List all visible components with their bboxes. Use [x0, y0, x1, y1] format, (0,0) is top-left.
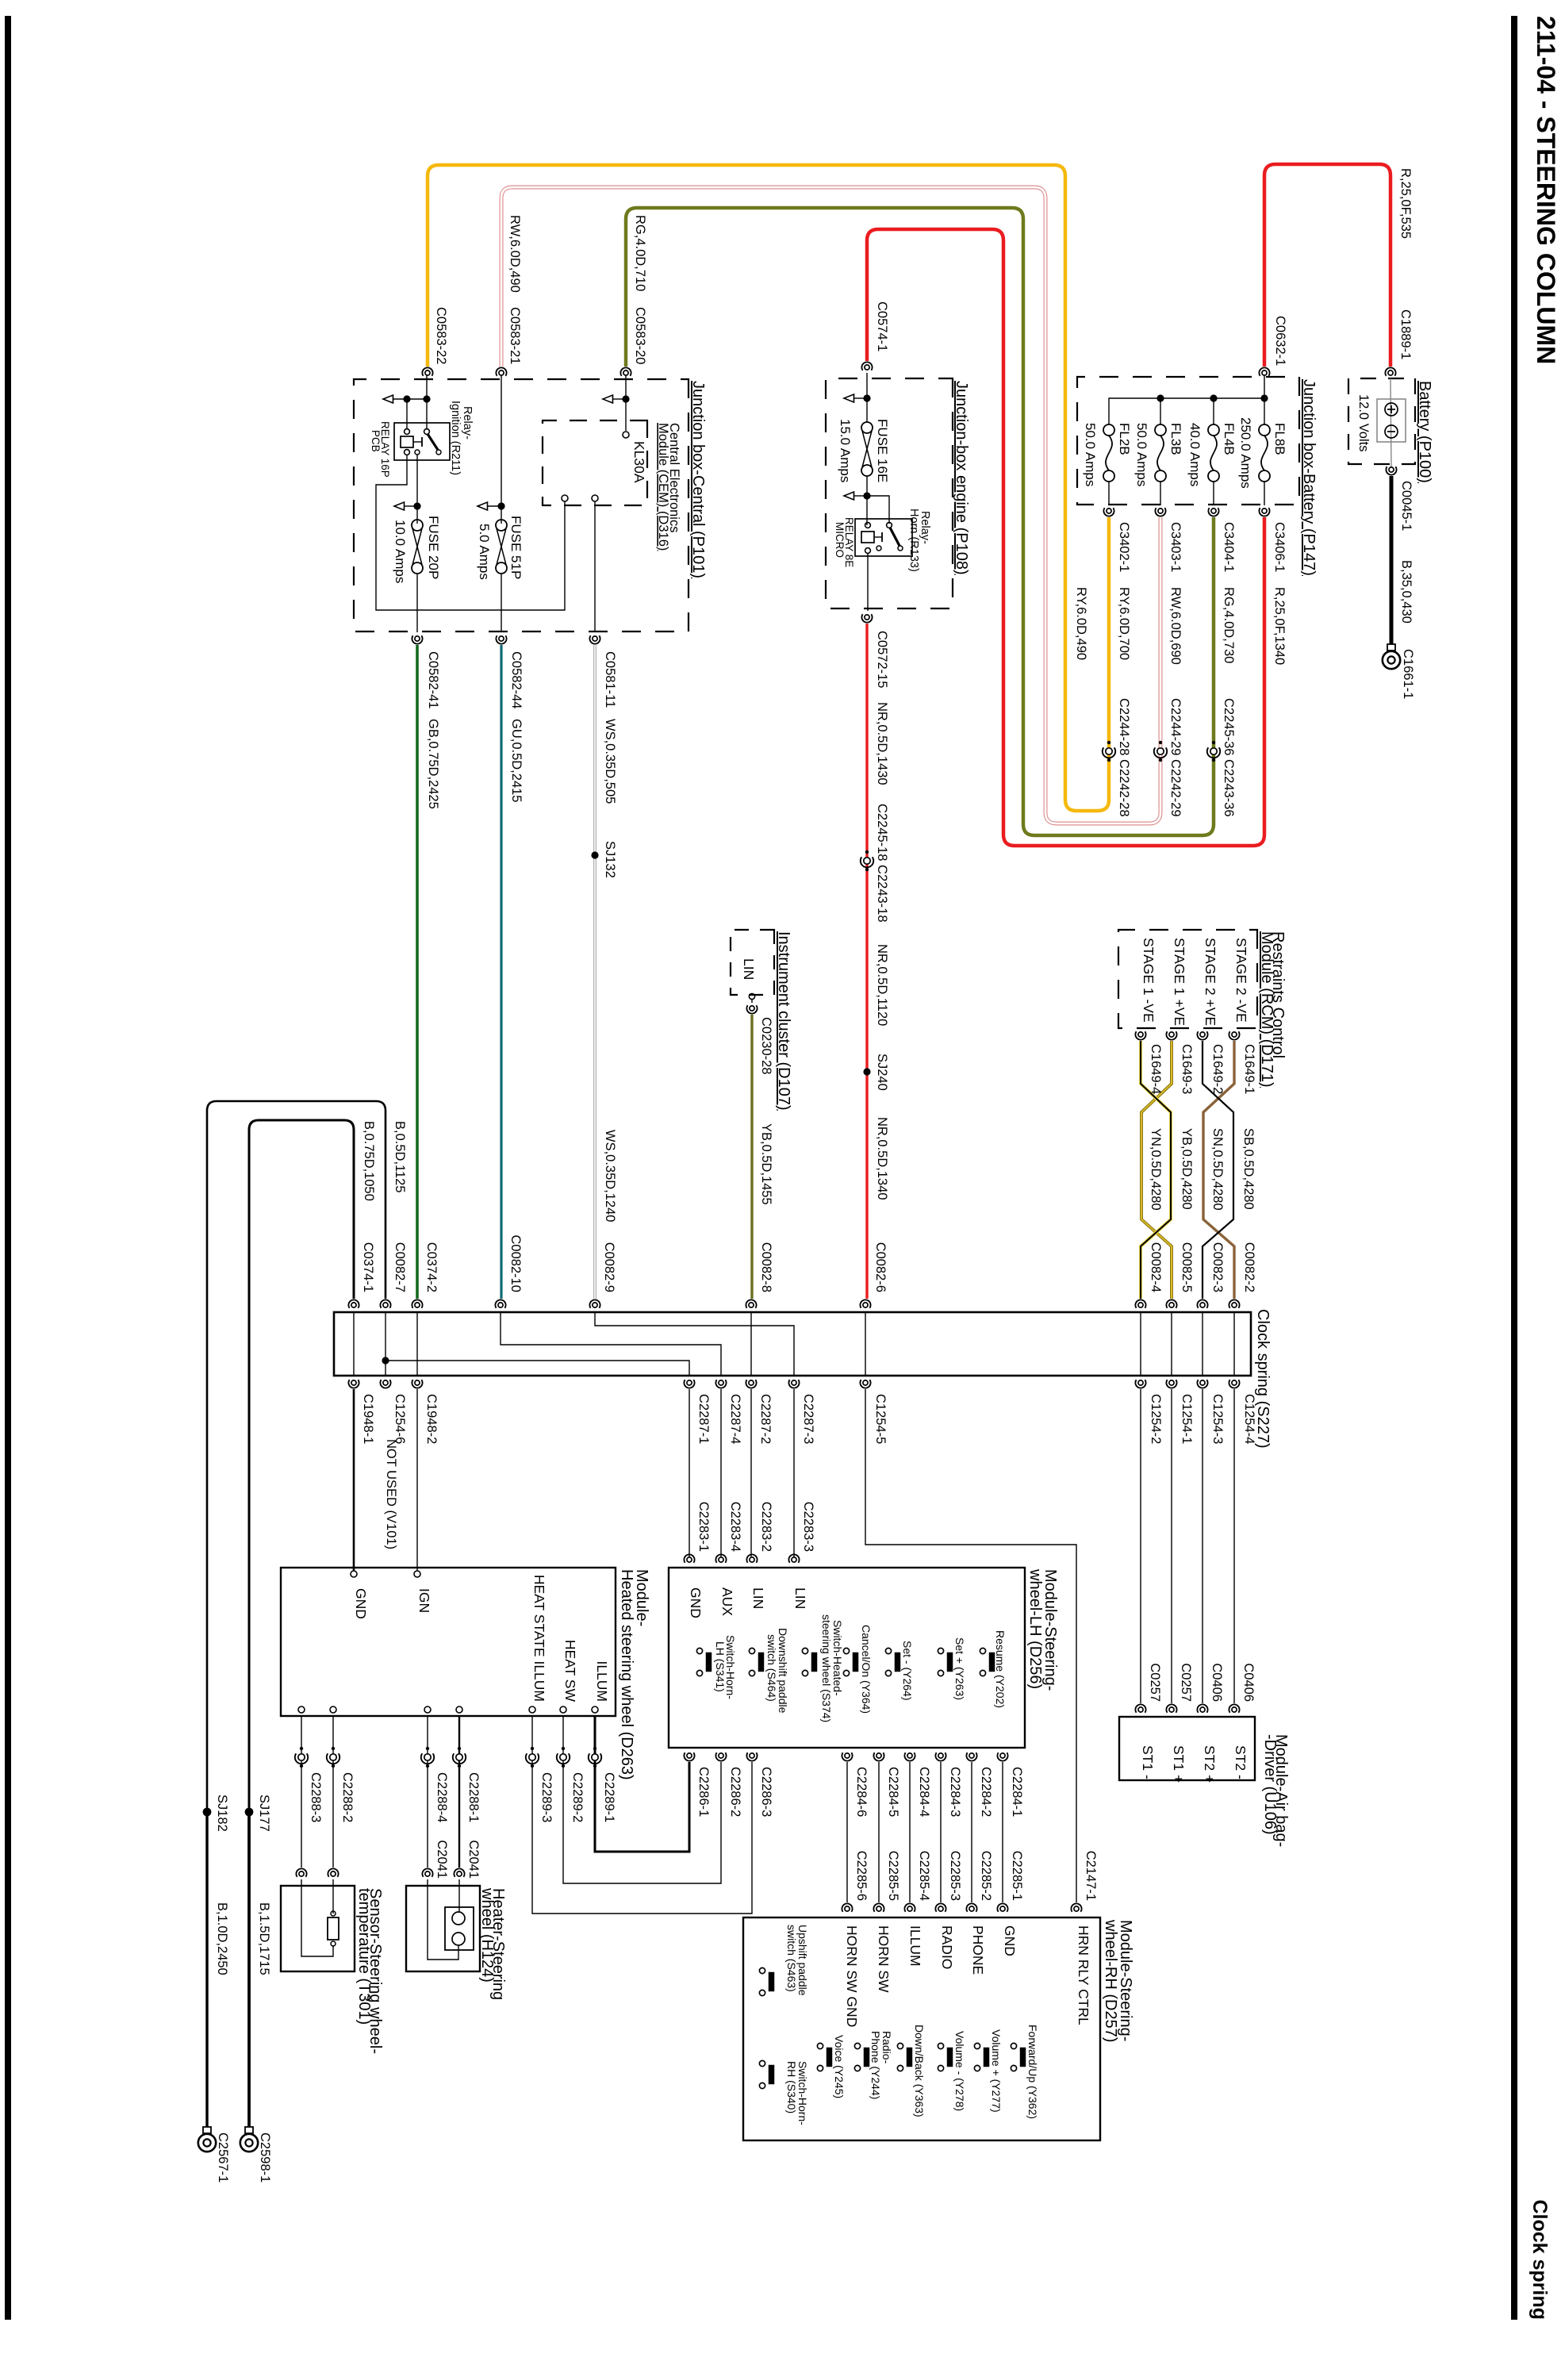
svg-text:C2283-3: C2283-3	[801, 1502, 815, 1552]
svg-text:C2285-3: C2285-3	[948, 1851, 962, 1901]
svg-text:B,0.75D,1050: B,0.75D,1050	[362, 1121, 376, 1201]
svg-text:PCB: PCB	[370, 430, 382, 452]
svg-text:C2288-4: C2288-4	[435, 1772, 449, 1822]
svg-text:B,1.0D,2450: B,1.0D,2450	[215, 1902, 229, 1975]
inline connector C2289-3	[531, 1747, 534, 1750]
switch Forward/Up Y362	[1011, 2043, 1016, 2048]
connector C1254-4	[1232, 1380, 1237, 1385]
svg-text:RADIO: RADIO	[939, 1925, 955, 1969]
svg-text:C2284-5: C2284-5	[886, 1767, 900, 1817]
connector C2285-2	[969, 1906, 974, 1911]
inline connector C2244-28 C2242-28	[1107, 741, 1110, 744]
connector C2287-4	[719, 1380, 723, 1385]
pin D263 bottom 4	[456, 1706, 462, 1713]
connector C2284-3	[938, 1753, 943, 1758]
wire R,25,0F,1340 FL8B to junction-box engine C0574-1	[867, 229, 1264, 846]
module air bag driver U106 box	[1119, 1717, 1255, 1780]
wire C0583-21 through FUSE 51P to C0582-44	[501, 373, 502, 524]
switch Voice Y245	[817, 2043, 823, 2048]
connector C2284-4	[907, 1753, 912, 1758]
connector C2285-1	[1000, 1906, 1005, 1911]
svg-text:C2284-6: C2284-6	[854, 1767, 869, 1817]
svg-text:C0572-15: C0572-15	[875, 631, 889, 688]
wire RG olive C0583-20 to FL4B	[626, 208, 1214, 835]
pin D263 IGN	[414, 1571, 420, 1577]
svg-text:STAGE 2 +VE: STAGE 2 +VE	[1203, 938, 1218, 1026]
svg-text:C2287-3: C2287-3	[801, 1394, 815, 1444]
svg-text:C0082-10: C0082-10	[508, 1235, 523, 1292]
wire B,35,0,430 battery negative to ground	[1390, 476, 1394, 644]
svg-text:SJ132: SJ132	[603, 841, 617, 878]
wire relay R133 to C0572-15	[867, 553, 869, 611]
svg-text:Volume - (Y278): Volume - (Y278)	[953, 2031, 966, 2111]
relay R211 coil	[401, 436, 413, 447]
wire C2287-3 to C2283-3	[793, 1389, 795, 1557]
wire C2287-2 to C2283-2	[750, 1389, 752, 1557]
connector C2283-2	[750, 1557, 754, 1562]
wire C2284-6 to C2285-6	[846, 1762, 848, 1902]
connector C0045-1	[1389, 467, 1394, 472]
switch Volume - Y278	[938, 2043, 943, 2048]
wire FUSE 20P to C0582-41	[416, 574, 418, 632]
pin D263 ILLUM	[592, 1706, 598, 1713]
switch Switch-Heated-steering wheel S374	[802, 1648, 807, 1653]
svg-text:FL8B: FL8B	[1272, 423, 1287, 455]
connector C2283-3	[792, 1557, 796, 1562]
connector C2285-4	[907, 1906, 912, 1911]
inline connector C2288-1	[458, 1747, 461, 1750]
wire WS,0.35D gray C0581-11 to clock spring C0082-9	[593, 645, 596, 1299]
connector C1649-2	[1200, 1032, 1205, 1037]
fuse FUSE 16E 15.0 Amps	[861, 422, 873, 433]
wire B,0.5D,1125 C0082-7 loop to SJ182	[207, 1101, 385, 1812]
svg-text:C0045-1: C0045-1	[1399, 481, 1413, 531]
svg-text:C0230-28: C0230-28	[759, 1017, 773, 1074]
connector C0583-20	[623, 370, 628, 375]
svg-text:50.0 Amps: 50.0 Amps	[1134, 423, 1149, 486]
module steering wheel LH D256 box	[669, 1568, 1025, 1748]
wire fuse outputs to bottom connectors	[1108, 482, 1110, 505]
svg-text:MICRO: MICRO	[834, 522, 846, 558]
ground C2598-1	[245, 2127, 253, 2133]
connector C2284-5	[876, 1753, 881, 1758]
heater H124 internal wiring	[428, 1879, 458, 1960]
heater steering wheel H124 box	[406, 1886, 480, 1971]
node bus dot FL8B	[1260, 394, 1268, 401]
svg-text:C2284-2: C2284-2	[979, 1767, 993, 1817]
restraints control module RCM D171 dashed box	[1118, 930, 1257, 1028]
switch Down/Back Y363	[897, 2043, 903, 2048]
inline connector C2288-3	[300, 1747, 303, 1750]
svg-text:Module (CEM) (D316): Module (CEM) (D316)	[656, 423, 670, 551]
pin CEM LIN out	[592, 495, 598, 501]
wire YB,0.5D,1455 instrument cluster LIN to C0082-8	[750, 1015, 753, 1299]
wire B,1.5D,1715 SJ177 to ground C2598-1	[247, 1812, 251, 2127]
svg-text:C2598-1: C2598-1	[258, 2132, 272, 2182]
svg-text:NR,0.5D,1430: NR,0.5D,1430	[875, 702, 889, 785]
clock spring internal path C0082-10 to C2287-4	[501, 1312, 721, 1376]
connector C1254-5	[863, 1380, 868, 1385]
connector C0583-22	[425, 370, 430, 375]
relay R133 coil pins	[865, 523, 871, 528]
connector C2284-1	[1000, 1753, 1005, 1758]
svg-text:-Driver (U106): -Driver (U106)	[1261, 1734, 1279, 1835]
node junction dot KL30A	[622, 395, 629, 402]
svg-text:C1649-3: C1649-3	[1180, 1044, 1194, 1094]
off-page arrow relay feed	[383, 395, 393, 403]
svg-text:ST2 -: ST2 -	[1233, 1745, 1249, 1779]
svg-text:C0406: C0406	[1210, 1663, 1224, 1702]
svg-text:C3404-1: C3404-1	[1222, 522, 1236, 572]
svg-text:FL3B: FL3B	[1168, 423, 1183, 455]
svg-text:Heated steering wheel (D263): Heated steering wheel (D263)	[618, 1569, 635, 1780]
node junction dot FUSE 51P top	[497, 502, 504, 509]
off-page arrow FUSE 51P	[478, 502, 488, 510]
svg-text:FUSE 16E: FUSE 16E	[875, 419, 890, 482]
svg-text:C2289-1: C2289-1	[602, 1772, 616, 1822]
connector C0257 st1+	[1169, 1707, 1174, 1712]
off-page arrow KL30A	[603, 395, 613, 403]
wire ignition feed C0583-22 into relay R211	[426, 373, 428, 429]
fusible link FL2B 50.0 Amps	[1103, 424, 1114, 436]
svg-text:15.0 Amps: 15.0 Amps	[838, 419, 853, 482]
heater element H124	[445, 1907, 474, 1950]
wire GB,0.75D,2425 green C0582-41 to clock spring C0374-2	[416, 645, 419, 1299]
switch Radio-Phone Y244	[854, 2043, 860, 2048]
svg-text:HRN RLY CTRL: HRN RLY CTRL	[1076, 1925, 1091, 2025]
svg-text:RG,4.0D,730: RG,4.0D,730	[1222, 587, 1236, 663]
svg-text:Horn (R133): Horn (R133)	[907, 509, 920, 572]
connector C1649-1	[1232, 1032, 1237, 1037]
svg-text:wheel-LH (D256): wheel-LH (D256)	[1026, 1568, 1044, 1689]
connector C0572-15	[865, 615, 869, 620]
svg-text:Resume (Y202): Resume (Y202)	[994, 1630, 1007, 1708]
connector C2284-2	[969, 1753, 974, 1758]
wire D263 pin3 to C2288-4 to heater C2041	[427, 1716, 428, 1868]
connector C1948-2	[415, 1380, 420, 1385]
svg-text:STAGE 1 -VE: STAGE 1 -VE	[1141, 938, 1156, 1023]
wire C2284-1 to C2285-1	[1002, 1762, 1003, 1902]
module heated steering wheel D263 box	[281, 1568, 616, 1716]
svg-text:C1254-2: C1254-2	[1149, 1394, 1163, 1444]
connector C2041 heater pin1	[425, 1871, 430, 1876]
svg-text:C0082-3: C0082-3	[1210, 1242, 1225, 1292]
svg-text:C2284-4: C2284-4	[917, 1767, 931, 1817]
resistor temperature sensing element	[331, 1911, 336, 1916]
connector C2284-6	[845, 1753, 850, 1758]
svg-text:C2245-18 C2243-18: C2245-18 C2243-18	[875, 804, 889, 923]
svg-text:C2287-1: C2287-1	[696, 1394, 711, 1444]
svg-text:211-04 - STEERING COLUMN: 211-04 - STEERING COLUMN	[1532, 16, 1560, 364]
wire D263 pin4 to C2288-1 to heater C2041	[458, 1716, 460, 1868]
connector C0082-8	[749, 1303, 754, 1307]
connector C1649-3	[1169, 1032, 1174, 1037]
svg-text:NR,0.5D,1340: NR,0.5D,1340	[875, 1117, 889, 1200]
wire SB,0.5D,4280 RCM stage2- C1649-1 to C0082-2 twisted	[1203, 1041, 1234, 1299]
instrument cluster D107 dashed box	[731, 930, 774, 995]
central electronics module CEM D316 dashed box	[543, 420, 647, 505]
svg-text:C2285-4: C2285-4	[917, 1851, 931, 1901]
wire YN,0.5D,4280 RCM stage1- C1649-4 to C0082-4 twisted	[1141, 1041, 1171, 1299]
pin D263 HEAT SW	[560, 1706, 566, 1713]
connector C1254-1	[1169, 1380, 1174, 1385]
relay R211 ignition relay box	[394, 423, 450, 460]
svg-text:C2284-1: C2284-1	[1010, 1767, 1024, 1817]
svg-text:HEAT SW: HEAT SW	[562, 1640, 578, 1702]
svg-text:C2244-29 C2242-29: C2244-29 C2242-29	[1168, 698, 1183, 817]
svg-text:C2287-4: C2287-4	[728, 1394, 742, 1444]
pin D263 bottom 1	[298, 1706, 305, 1713]
node clock spring dot	[382, 1357, 389, 1364]
module steering wheel RH D257 box	[743, 1917, 1100, 2140]
svg-text:C1254-5: C1254-5	[873, 1394, 888, 1444]
svg-text:250.0 Amps: 250.0 Amps	[1238, 417, 1253, 489]
connector C0374-2	[415, 1303, 420, 1307]
svg-text:C2288-1: C2288-1	[466, 1772, 481, 1822]
svg-text:steering wheel (S374): steering wheel (S374)	[820, 1614, 833, 1722]
fusible link FL4B 40.0 Amps	[1208, 424, 1219, 436]
connector C2287-3	[792, 1380, 796, 1385]
clock spring internal path C0374-2 to C1948-2	[416, 1312, 418, 1376]
svg-text:FL4B: FL4B	[1222, 423, 1237, 455]
pin D263 HEAT STATE ILLUM	[529, 1706, 535, 1713]
connector C2147-1	[1074, 1906, 1079, 1911]
node bus dot FL4B	[1210, 394, 1217, 401]
pin D263 bottom 2	[330, 1706, 336, 1713]
wire D263 pin1 to C2288-3 to sensor T301	[301, 1716, 302, 1868]
svg-text:C2244-28 C2242-28: C2244-28 C2242-28	[1117, 698, 1131, 817]
svg-text:switch (S464): switch (S464)	[765, 1634, 778, 1702]
svg-text:ST1 +: ST1 +	[1171, 1745, 1187, 1783]
svg-text:C2285-1: C2285-1	[1010, 1851, 1024, 1901]
svg-text:AUX: AUX	[719, 1587, 735, 1616]
connector C2283-1	[687, 1557, 692, 1562]
wire battery bus in P147	[1109, 398, 1264, 424]
svg-text:Set + (Y263): Set + (Y263)	[953, 1637, 966, 1700]
svg-text:Junction box-Central (P101): Junction box-Central (P101)	[689, 381, 707, 578]
svg-text:FUSE 20P: FUSE 20P	[426, 516, 441, 579]
svg-text:50.0 Amps: 50.0 Amps	[1083, 423, 1098, 486]
svg-text:Battery (P100): Battery (P100)	[1416, 381, 1433, 483]
svg-text:C2285-6: C2285-6	[854, 1851, 869, 1901]
connector C0230-28	[750, 1006, 754, 1011]
clock spring internal path C0082-9 to C2287-3	[595, 1312, 794, 1376]
svg-text:YB,0.5D,4280: YB,0.5D,4280	[1180, 1128, 1194, 1210]
svg-text:10.0 Amps: 10.0 Amps	[393, 520, 408, 583]
wire C2284-3 to C2285-3	[940, 1762, 942, 1902]
svg-text:NOT USED (V101): NOT USED (V101)	[384, 1439, 398, 1549]
svg-text:C1254-6: C1254-6	[393, 1394, 407, 1444]
inline connector C2245-36 C2243-36	[1212, 741, 1215, 744]
svg-text:C0374-1: C0374-1	[361, 1242, 375, 1292]
svg-text:RW,6.0D,490: RW,6.0D,490	[508, 215, 522, 293]
svg-text:RH (S340): RH (S340)	[785, 2061, 798, 2113]
wire C1254-1 to air bag C0257	[1171, 1389, 1172, 1703]
wire C1948-2 to D263 IGN	[416, 1389, 418, 1571]
svg-text:Volume + (Y277): Volume + (Y277)	[990, 2029, 1003, 2113]
fuse FUSE 20P 10.0 Amps	[412, 520, 423, 531]
connector C3406-1	[1262, 509, 1267, 513]
wire YB,0.5D,4280 RCM stage1+ C1649-3 to C0082-5 twisted	[1141, 1041, 1172, 1299]
connector C0581-11	[593, 636, 597, 641]
node junction dot relay feed B	[423, 395, 430, 402]
svg-text:YN,0.5D,4280: YN,0.5D,4280	[1149, 1128, 1163, 1211]
svg-text:switch (S463): switch (S463)	[785, 1925, 798, 1992]
svg-text:C2245-36 C2243-36: C2245-36 C2243-36	[1222, 698, 1236, 817]
connector C1889-1	[1388, 370, 1393, 375]
wire SN,0.5D,4280 RCM stage2+ C1649-2 to C0082-3 twisted	[1203, 1041, 1233, 1299]
svg-text:C1649-1: C1649-1	[1242, 1044, 1256, 1094]
wire C2287-1 to C2283-1	[689, 1389, 690, 1557]
svg-text:C1649-2: C1649-2	[1210, 1044, 1225, 1094]
fusible link FL3B 50.0 Amps	[1155, 424, 1166, 436]
svg-text:C1254-1: C1254-1	[1180, 1394, 1194, 1444]
svg-text:C2285-5: C2285-5	[886, 1851, 900, 1901]
connector C2288-3 sensor ring	[299, 1871, 304, 1876]
svg-text:HORN SW GND: HORN SW GND	[844, 1925, 860, 2027]
svg-text:RW,6.0D,690: RW,6.0D,690	[1168, 587, 1183, 665]
wire C1254-4 to air bag C0406	[1233, 1389, 1235, 1703]
svg-text:SN,0.5D,4280: SN,0.5D,4280	[1210, 1128, 1225, 1211]
svg-text:STAGE 2 -VE: STAGE 2 -VE	[1233, 938, 1249, 1023]
inline connector C2288-4	[426, 1747, 429, 1750]
svg-text:STAGE 1 +VE: STAGE 1 +VE	[1172, 938, 1187, 1026]
svg-text:WS,0.35D,1240: WS,0.35D,1240	[603, 1130, 617, 1222]
connector C0406 st2-	[1232, 1707, 1237, 1712]
svg-text:Down/Back (Y363): Down/Back (Y363)	[913, 2025, 926, 2117]
svg-text:C2283-2: C2283-2	[759, 1502, 773, 1552]
clock spring internal path C0082-5 to C1254-1	[1171, 1312, 1172, 1376]
svg-text:GND: GND	[353, 1588, 369, 1619]
connector C2288-2 sensor ring	[331, 1871, 336, 1876]
wire branch to relay switch	[867, 496, 889, 524]
wire relay coil return to CEM pin	[376, 455, 565, 610]
clock spring internal path C0082-4 to C1254-2	[1140, 1312, 1141, 1376]
connector C2286-3	[750, 1753, 754, 1758]
connector C2283-4	[719, 1557, 723, 1562]
svg-text:C2287-2: C2287-2	[758, 1394, 773, 1444]
inline connector C2289-2	[562, 1747, 565, 1750]
svg-text:GB,0.75D,2425: GB,0.75D,2425	[426, 719, 440, 809]
relay R211 coil pins	[405, 429, 410, 435]
connector C1948-1	[351, 1380, 356, 1385]
svg-text:Instrument cluster (D107): Instrument cluster (D107)	[775, 931, 792, 1111]
connector C0582-41	[415, 636, 420, 641]
svg-text:C2567-1: C2567-1	[216, 2132, 230, 2182]
svg-text:C0082-4: C0082-4	[1149, 1242, 1163, 1292]
svg-text:B,35,0,430: B,35,0,430	[1399, 560, 1413, 624]
svg-text:Clock spring: Clock spring	[1529, 2200, 1551, 2320]
inline connector C2244-29 C2242-29	[1159, 741, 1162, 744]
svg-text:WS,0.35D,505: WS,0.35D,505	[603, 719, 617, 804]
wire C1254-5 to D257 HRN RLY CTRL via C2147-1	[865, 1389, 1076, 1902]
connector C0082-10	[498, 1303, 503, 1307]
wire C1948-1 to D263 GND	[353, 1389, 355, 1571]
svg-text:C0082-7: C0082-7	[393, 1242, 407, 1292]
svg-text:C2288-3: C2288-3	[309, 1772, 323, 1822]
svg-text:C2283-4: C2283-4	[728, 1502, 742, 1552]
switch Set - Y264	[885, 1648, 891, 1653]
svg-text:GND: GND	[688, 1587, 704, 1618]
connector C2286-2	[719, 1753, 723, 1758]
svg-text:R,25,0F,535: R,25,0F,535	[1398, 168, 1413, 239]
svg-text:C0406: C0406	[1241, 1663, 1256, 1702]
wire FUSE 16E to relay R133	[866, 476, 868, 525]
connector C1254-6 not used	[383, 1380, 388, 1385]
ground C2567-1	[203, 2127, 211, 2133]
wire C1254-3 to air bag C0406	[1202, 1389, 1203, 1703]
svg-text:C1661-1: C1661-1	[1401, 649, 1415, 699]
wire R,25,0F,535 battery to junction box battery	[1264, 164, 1390, 367]
connector C1254-2	[1138, 1380, 1143, 1385]
wire D263 pin2 to C2288-2 to sensor T301	[332, 1716, 334, 1868]
svg-text:LIN: LIN	[750, 1587, 766, 1609]
clock spring S227 box	[334, 1312, 1251, 1376]
svg-text:C2286-1: C2286-1	[696, 1767, 711, 1817]
wire C0583-20 to CEM KL30A	[625, 373, 627, 431]
clock spring internal path C0082-2 to C1254-4	[1233, 1312, 1235, 1376]
svg-text:C0082-5: C0082-5	[1180, 1242, 1194, 1292]
svg-text:NR,0.5D,1120: NR,0.5D,1120	[875, 944, 889, 1026]
battery P100 dashed box	[1348, 378, 1415, 464]
svg-text:C0582-44: C0582-44	[509, 651, 524, 708]
switch Downshift paddle switch S464	[749, 1648, 754, 1653]
svg-text:C2283-1: C2283-1	[696, 1502, 711, 1552]
node junction dot relay feed A	[403, 395, 410, 402]
connector C2287-1	[687, 1380, 692, 1385]
connector C1254-3	[1200, 1380, 1205, 1385]
clock spring internal path C0374-1 to C1948-1	[353, 1312, 355, 1376]
connector C2285-5	[876, 1906, 881, 1911]
wire C2284-2 to C2285-2	[971, 1762, 972, 1902]
switch Upshift paddle switch S463	[759, 1967, 765, 1973]
svg-text:B,0.5D,1125: B,0.5D,1125	[393, 1121, 407, 1193]
wire NR,0.5D red C0572-15 to clock spring C0082-6	[865, 624, 868, 1299]
connector C0583-21	[499, 370, 504, 375]
svg-text:C0583-22: C0583-22	[434, 307, 448, 364]
svg-text:R,25,0F,1340: R,25,0F,1340	[1272, 587, 1287, 665]
connector C0082-2	[1232, 1303, 1237, 1307]
svg-text:SJ182: SJ182	[215, 1795, 229, 1832]
svg-text:C0583-21: C0583-21	[508, 307, 522, 364]
wire ILLUM D263 to C2289-1 to C2286-1 thick	[595, 1716, 689, 1852]
connector C3402-1	[1107, 509, 1111, 513]
svg-text:B,1.5D,1715: B,1.5D,1715	[257, 1902, 271, 1975]
connector C0257 st1-	[1138, 1707, 1143, 1712]
svg-text:C0082-9: C0082-9	[602, 1242, 616, 1292]
header rule top	[1511, 16, 1517, 2320]
pin KL30A	[623, 432, 629, 438]
svg-text:C3403-1: C3403-1	[1168, 522, 1183, 572]
svg-text:LIN: LIN	[741, 958, 757, 980]
svg-text:C2288-2: C2288-2	[340, 1772, 355, 1822]
pin LIN cluster	[749, 993, 754, 999]
svg-text:ST1 -: ST1 -	[1140, 1745, 1156, 1779]
off-page arrow FUSE 20P	[394, 502, 405, 510]
svg-text:Junction box-Battery (P147): Junction box-Battery (P147)	[1300, 379, 1318, 576]
svg-text:C0082-6: C0082-6	[873, 1242, 888, 1292]
svg-text:ILLUM: ILLUM	[907, 1925, 923, 1967]
sensor steering wheel temperature T301 box	[281, 1886, 355, 1971]
svg-text:5.0 Amps: 5.0 Amps	[477, 524, 492, 580]
wire GU,0.5D,2415 teal C0582-44 to clock spring C0082-10	[500, 645, 502, 1299]
wire RW pink C0583-21 to FL3B	[501, 187, 1160, 823]
svg-text:HEAT STATE ILLUM: HEAT STATE ILLUM	[531, 1575, 547, 1702]
svg-text:LH (S341): LH (S341)	[714, 1641, 727, 1692]
svg-text:SJ240: SJ240	[875, 1054, 889, 1091]
connector C2285-6	[845, 1906, 850, 1911]
svg-text:C0082-8: C0082-8	[759, 1242, 773, 1292]
